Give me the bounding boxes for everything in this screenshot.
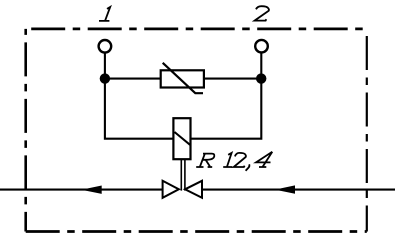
flow arrow right <box>275 185 295 193</box>
solenoid coil body <box>173 118 190 159</box>
enclosure border top (dash-dot) <box>26 27 367 30</box>
solenoid coil diagonal <box>175 132 191 145</box>
enclosure border right (dash-dot) <box>366 29 368 232</box>
valve left triangle <box>163 181 179 198</box>
enclosure border bottom (dash-dot) <box>26 230 367 233</box>
wire: left branch from terminal 1 down and across bottom to terminal 2 <box>105 53 261 139</box>
resistor (thermistor) body <box>161 70 204 87</box>
terminal 2 circle <box>255 40 268 53</box>
flow line (fuel pipe) left segment <box>0 189 165 191</box>
glyph comma <box>246 164 250 170</box>
junction node 1 <box>100 73 110 83</box>
wire: horizontal link between node 1 and node 2 through resistor <box>105 78 261 80</box>
label pin 1 <box>99 7 110 21</box>
junction node 2 <box>256 73 266 83</box>
flow arrow left <box>81 186 101 194</box>
glyph 2 <box>234 153 246 167</box>
value label R 12,4 <box>196 152 272 171</box>
glyph 4 <box>256 152 272 167</box>
valve right triangle <box>185 181 202 198</box>
flow line (fuel pipe) right segment <box>200 189 395 191</box>
terminal 1 circle <box>99 40 112 53</box>
glyph 1 <box>223 153 232 167</box>
actuator stem (double line from coil to valve) <box>181 159 185 190</box>
glyph R <box>196 154 214 167</box>
resistor (thermistor) diagonal stroke with foot <box>163 63 203 93</box>
label pin 2 <box>255 6 269 20</box>
enclosure border left (dash-dot) <box>24 29 27 232</box>
